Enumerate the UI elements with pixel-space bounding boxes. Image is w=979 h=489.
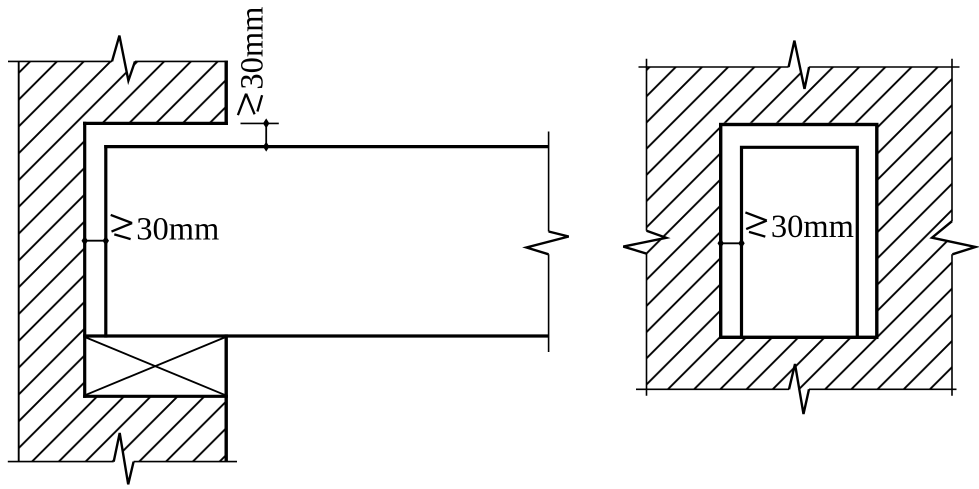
left wall bottom edge line	[8, 461, 237, 463]
top dimension line	[265, 123, 267, 146]
beam right break line	[548, 132, 550, 353]
bearing pad / wall right edge (thick)	[224, 334, 227, 461]
left wall bottom break zigzag	[114, 433, 134, 484]
sleeve inner lining (left, top, right)	[742, 147, 858, 337]
left wall bottom break zigzag mask	[114, 433, 134, 484]
top dimension terminator upper	[263, 118, 269, 128]
ledge right edge (thick)	[224, 61, 227, 125]
right square right break zigzag mask	[932, 221, 975, 254]
right square left break zigzag mask	[623, 231, 666, 254]
svg-text:30mm: 30mm	[136, 212, 219, 248]
bearing pad X diagonal 1	[86, 338, 225, 395]
right square right edge line	[951, 59, 953, 396]
svg-text:30mm: 30mm	[235, 7, 271, 90]
sleeve outer rectangle (thick)	[721, 125, 877, 338]
right dimension line	[721, 242, 742, 244]
left dimension terminator left	[82, 236, 88, 246]
right dimension terminator left	[718, 238, 724, 248]
beam right break zigzag mask	[527, 232, 569, 255]
right square top edge line	[639, 66, 960, 68]
ledge bottom edge (thick)	[83, 122, 228, 125]
right square right break zigzag	[932, 221, 975, 254]
beam top edge (thick)	[104, 145, 548, 148]
right square bottom break zigzag	[789, 364, 809, 414]
right square top break zigzag mask	[789, 41, 810, 89]
left wall outer left edge	[18, 61, 20, 461]
label ">=30mm" (left beam)	[111, 212, 220, 248]
beam left end edge (thick)	[104, 145, 107, 338]
top dimension extension line	[241, 122, 279, 124]
svg-text:30mm: 30mm	[771, 209, 854, 245]
beam bottom edge (thick, continues as pad top)	[83, 334, 548, 337]
beam right break zigzag	[527, 232, 569, 255]
right square top break zigzag	[789, 41, 810, 89]
right square left break zigzag	[623, 231, 666, 254]
left wall hatched masonry region (C-shape)	[19, 61, 227, 461]
left wall top edge line	[8, 60, 228, 62]
right wall hatched square with hole	[647, 67, 953, 389]
left dimension line	[85, 240, 106, 242]
label ">=30mm" (right)	[745, 209, 854, 245]
top dimension terminator lower	[263, 142, 269, 152]
rotated label ">=30mm" (top)	[235, 7, 271, 116]
bearing pad bottom edge (thick)	[83, 395, 228, 398]
right dimension terminator right	[738, 238, 744, 248]
left dimension terminator right	[103, 236, 109, 246]
left wall top break zigzag	[112, 36, 135, 81]
right square bottom edge line	[636, 388, 957, 390]
right square left edge line	[646, 59, 648, 396]
right square bottom break zigzag mask	[789, 364, 809, 414]
bearing pad X diagonal 2	[86, 338, 225, 395]
left wall top break zigzag mask	[112, 36, 135, 81]
wall inner face edge (thick)	[83, 122, 86, 398]
